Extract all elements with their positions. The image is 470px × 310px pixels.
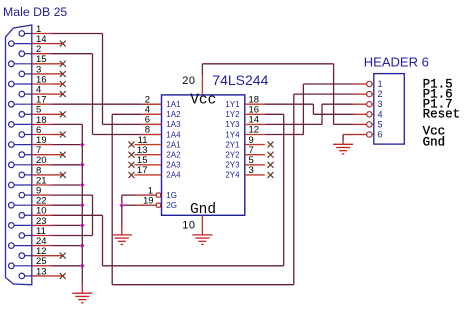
svg-text:13: 13: [36, 266, 47, 277]
svg-text:Vcc: Vcc: [190, 92, 216, 108]
svg-text:1Y1: 1Y1: [225, 100, 240, 109]
svg-text:1A2: 1A2: [166, 110, 181, 119]
svg-text:Male DB 25: Male DB 25: [3, 5, 67, 19]
svg-text:3: 3: [378, 99, 383, 109]
svg-text:3: 3: [249, 165, 254, 176]
svg-text:2: 2: [378, 89, 383, 99]
svg-text:2G: 2G: [166, 201, 177, 210]
svg-text:Gnd: Gnd: [423, 135, 446, 149]
svg-text:2A1: 2A1: [166, 140, 181, 149]
svg-text:1A3: 1A3: [166, 120, 181, 129]
svg-text:10: 10: [182, 219, 195, 231]
svg-text:20: 20: [182, 75, 195, 87]
svg-text:2Y2: 2Y2: [225, 151, 240, 160]
svg-text:2Y4: 2Y4: [225, 171, 240, 180]
svg-text:4: 4: [378, 109, 383, 119]
svg-text:2A4: 2A4: [166, 171, 181, 180]
svg-text:1Y2: 1Y2: [225, 110, 240, 119]
svg-text:2Y3: 2Y3: [225, 161, 240, 170]
svg-text:1: 1: [378, 79, 383, 89]
svg-text:1Y3: 1Y3: [225, 120, 240, 129]
svg-text:Reset: Reset: [423, 108, 461, 122]
svg-text:1G: 1G: [166, 191, 177, 200]
svg-text:1A1: 1A1: [166, 100, 181, 109]
svg-text:5: 5: [378, 119, 383, 129]
svg-text:2Y1: 2Y1: [225, 140, 240, 149]
svg-text:2A2: 2A2: [166, 151, 181, 160]
svg-text:1Y4: 1Y4: [225, 130, 240, 139]
svg-text:2A3: 2A3: [166, 161, 181, 170]
svg-text:17: 17: [137, 165, 148, 176]
svg-text:6: 6: [378, 130, 383, 140]
svg-text:74LS244: 74LS244: [212, 72, 268, 88]
svg-text:HEADER 6: HEADER 6: [364, 54, 429, 69]
svg-text:1A4: 1A4: [166, 130, 181, 139]
